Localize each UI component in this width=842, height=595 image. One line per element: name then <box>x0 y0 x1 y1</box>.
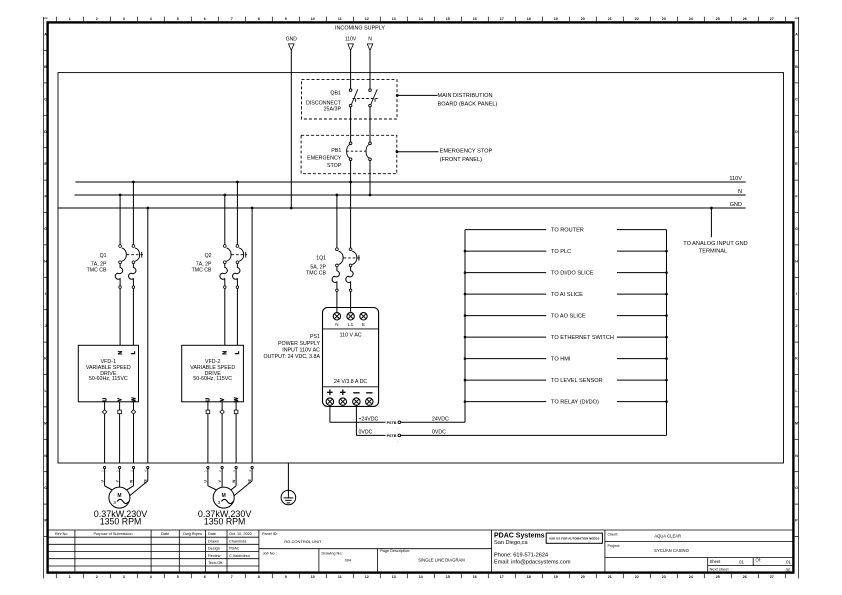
svg-text:TMC CB: TMC CB <box>87 267 107 273</box>
svg-text:9: 9 <box>285 17 287 21</box>
svg-text:26: 26 <box>743 17 747 21</box>
svg-text:Date: Date <box>161 532 169 536</box>
node rung/rail junctions <box>464 357 467 360</box>
svg-text:GND: GND <box>286 37 298 43</box>
svg-text:110 V AC: 110 V AC <box>340 332 362 338</box>
svg-text:W: W <box>232 480 236 483</box>
svg-text:D: D <box>795 130 798 134</box>
svg-text:3: 3 <box>113 500 116 505</box>
wire tag VFD-2 2 <box>220 410 224 414</box>
wire Q1 pole2 to VFD-1 L <box>132 288 134 345</box>
svg-text:BOARD (BACK PANEL): BOARD (BACK PANEL) <box>438 101 498 107</box>
svg-text:9: 9 <box>285 575 287 579</box>
wire rung TO RELAY (DI/DO) (right) <box>617 401 667 403</box>
PS1 output terminal +2 <box>339 398 346 405</box>
bus N <box>75 194 746 196</box>
svg-text:004: 004 <box>345 559 351 563</box>
wire VFD-1 output 1 to motor M1 <box>104 402 106 463</box>
svg-text:24 V/3.8 A DC: 24 V/3.8 A DC <box>334 379 367 385</box>
wire Q2 pole2 to VFD-2 L <box>236 288 238 345</box>
motor M1 (0.37kW 230V) <box>104 467 106 469</box>
svg-text:110V: 110V <box>345 37 357 43</box>
svg-text:W: W <box>234 397 240 402</box>
svg-text:5: 5 <box>177 575 179 579</box>
svg-text:10: 10 <box>311 17 315 21</box>
svg-text:Job No :: Job No : <box>263 551 277 555</box>
wire PS1 +24VDC output <box>329 405 331 422</box>
svg-text:San Diego,ca: San Diego,ca <box>494 540 528 546</box>
svg-text:Date: Date <box>208 532 216 536</box>
svg-text:12: 12 <box>365 575 369 579</box>
wire rung TO DI/DO SLICE (right) <box>617 272 667 274</box>
PS1 terminal N <box>333 313 340 320</box>
QB1 gang link (dashed) <box>353 98 378 100</box>
svg-text:OUTPUT: 24 VDC, 3.8A: OUTPUT: 24 VDC, 3.8A <box>263 354 320 360</box>
wire tag VFD-2 1 <box>206 410 210 414</box>
svg-text:U: U <box>102 398 108 402</box>
wire rung TO DI/DO SLICE (left) <box>465 272 546 274</box>
emergency stop PB1 contact 2 <box>369 142 372 145</box>
svg-text:RO-CONTROL UNIT: RO-CONTROL UNIT <box>284 539 322 544</box>
wire N bus to Q2 pole1 <box>224 195 226 245</box>
svg-text:STOP: STOP <box>327 163 342 169</box>
bus GND <box>58 207 746 209</box>
power supply PS1 enclosure <box>323 308 379 407</box>
terminal PSTB (24VDC) <box>386 419 399 425</box>
wire QB1 pole1 to PB1 <box>350 107 352 142</box>
bus 110V <box>75 181 745 183</box>
wire GND drop to ground bus <box>290 50 292 208</box>
svg-text:Drawn: Drawn <box>208 539 219 543</box>
top ruler numbers <box>69 17 774 21</box>
svg-text:6: 6 <box>204 575 206 579</box>
svg-text:H: H <box>44 259 47 263</box>
wire QB1 pole2 to PB1 <box>369 107 371 142</box>
svg-text:EMERGENCY STOP: EMERGENCY STOP <box>440 149 493 155</box>
left ruler ticks <box>44 18 48 536</box>
svg-text:23: 23 <box>662 575 666 579</box>
svg-text:18: 18 <box>527 17 531 21</box>
svg-text:I: I <box>45 292 46 296</box>
wire Q1 pole1 to VFD-1 N <box>119 288 121 345</box>
PS1 terminal E <box>360 313 367 320</box>
wire 1Q1 pole1 to PS1 N <box>336 292 338 313</box>
svg-text:TO ROUTER: TO ROUTER <box>551 228 584 234</box>
svg-text:13: 13 <box>392 575 396 579</box>
disconnect QB1 enclosure (dashed) <box>302 80 398 119</box>
svg-text:7: 7 <box>231 17 233 21</box>
svg-text:PDAC Systems: PDAC Systems <box>494 532 545 539</box>
wire Q2 pole1 to VFD-2 N <box>224 288 226 345</box>
svg-text:3: 3 <box>123 575 125 579</box>
svg-text:PSTB: PSTB <box>387 434 397 438</box>
wire GND bus to motor1 PE <box>147 208 149 463</box>
disconnect QB1 pole 1 (110V) <box>349 89 352 92</box>
svg-text:Sheet: Sheet <box>710 559 722 564</box>
node rung/rail junctions <box>464 336 467 339</box>
svg-text:PS1: PS1 <box>310 334 320 340</box>
svg-text:O: O <box>795 486 798 490</box>
circuit breaker Q1 (7A 2P TMC CB) <box>119 245 122 248</box>
wire rung TO ROUTER (left) <box>465 229 546 231</box>
svg-text:J: J <box>45 324 47 328</box>
svg-text:W: W <box>129 480 133 483</box>
svg-text:14: 14 <box>419 17 423 21</box>
PS1 output terminal +1 <box>326 398 333 405</box>
svg-text:14: 14 <box>419 575 423 579</box>
svg-text:11: 11 <box>338 575 342 579</box>
svg-text:Dwg Rqres: Dwg Rqres <box>183 532 202 536</box>
svg-text:3: 3 <box>218 500 221 505</box>
svg-text:AQUA CLEAR: AQUA CLEAR <box>654 534 681 539</box>
svg-text:W: W <box>131 397 137 402</box>
svg-text:U: U <box>206 398 212 402</box>
svg-text:M: M <box>222 493 226 499</box>
svg-text:15: 15 <box>446 17 450 21</box>
top ruler ticks <box>56 17 785 22</box>
svg-text:25: 25 <box>716 17 720 21</box>
wire rung TO PLC (right) <box>617 250 667 252</box>
svg-text:7: 7 <box>231 575 233 579</box>
wire 110V bus to Q2 pole2 <box>236 182 238 245</box>
wire N bus to Q1 pole1 <box>119 195 121 245</box>
wire N drop to QB1 <box>369 50 371 89</box>
svg-text:VARIABLE SPEED: VARIABLE SPEED <box>86 365 131 371</box>
svg-text:PDAC: PDAC <box>229 547 240 551</box>
title block <box>48 530 794 573</box>
svg-text:8: 8 <box>258 575 260 579</box>
node rung/rail junctions <box>464 293 467 296</box>
svg-text:TMC CB: TMC CB <box>306 271 326 277</box>
svg-text:TO RELAY (DI/DO): TO RELAY (DI/DO) <box>551 400 599 406</box>
PS1 divider top <box>323 328 379 330</box>
disconnect QB1 pole 2 (N) <box>369 89 372 92</box>
PS1 output terminal -2 <box>366 398 373 405</box>
svg-text:N: N <box>335 322 338 327</box>
svg-text:M: M <box>44 421 47 425</box>
wire GND bus to analog input gnd terminal <box>710 208 712 237</box>
svg-text:TMC CB: TMC CB <box>192 267 212 273</box>
wire VFD-2 output 3 to motor M2 <box>235 402 237 463</box>
wire rung TO ETHERNET SWITCH (right) <box>617 336 667 338</box>
terminal PSTB (0VDC) <box>386 432 399 438</box>
svg-text:PB1: PB1 <box>331 148 341 154</box>
svg-text:25: 25 <box>716 575 720 579</box>
wire PB1 contact2 to N bus <box>369 160 371 195</box>
emergency stop PB1 contact 1 <box>349 142 352 145</box>
wire VFD-1 output 2 to motor M1 <box>119 402 121 463</box>
svg-text:50-60Hz, 115VC: 50-60Hz, 115VC <box>193 376 232 382</box>
svg-text:M: M <box>117 493 121 499</box>
PS1 output terminal -1 <box>353 398 360 405</box>
wire rung TO AI SLICE (right) <box>617 293 667 295</box>
svg-text:1: 1 <box>69 575 71 579</box>
svg-text:Q1: Q1 <box>100 253 107 259</box>
svg-text:17: 17 <box>500 17 504 21</box>
svg-text:N: N <box>44 454 47 458</box>
svg-text:6: 6 <box>204 17 206 21</box>
svg-text:QB1: QB1 <box>330 91 341 97</box>
svg-text:K: K <box>44 357 47 361</box>
svg-text:1350 RPM: 1350 RPM <box>100 517 142 527</box>
svg-text:INPUT 110V AC: INPUT 110V AC <box>282 348 320 354</box>
svg-text:-: - <box>397 440 398 444</box>
wire PS1 0VDC output <box>355 405 357 435</box>
svg-text:N: N <box>118 351 124 355</box>
svg-text:Rev No: Rev No <box>55 532 68 536</box>
wire rung TO HMI (right) <box>617 358 667 360</box>
svg-text:C.Valdivieso: C.Valdivieso <box>229 554 250 558</box>
svg-text:26: 26 <box>743 575 747 579</box>
svg-text:Chaminda: Chaminda <box>229 539 247 543</box>
wire rung TO HMI (left) <box>465 358 546 360</box>
svg-text:M: M <box>795 421 798 425</box>
node rung/rail junctions <box>464 379 467 382</box>
sheet outer thin border left <box>43 17 45 579</box>
svg-text:TO HMI: TO HMI <box>551 357 571 363</box>
svg-text:22: 22 <box>635 17 639 21</box>
svg-text:25A/3P: 25A/3P <box>324 106 342 112</box>
svg-text:GND: GND <box>730 202 742 208</box>
wire rung TO AI SLICE (left) <box>465 293 546 295</box>
wire VFD-1 output 3 to motor M1 <box>133 402 135 463</box>
callout line to EMERGENCY STOP <box>397 151 439 153</box>
VFD-1 variable speed drive <box>78 345 138 402</box>
svg-text:TO DI/DO SLICE: TO DI/DO SLICE <box>551 271 594 277</box>
rail +24VDC (left) <box>464 230 466 423</box>
svg-text:B: B <box>44 65 47 69</box>
svg-text:1350 RPM: 1350 RPM <box>204 517 246 527</box>
terminal 110V (incoming) <box>348 44 354 51</box>
svg-text:2: 2 <box>96 17 98 21</box>
svg-text:I: I <box>796 292 797 296</box>
title block header texts <box>55 532 252 565</box>
svg-text:10: 10 <box>311 575 315 579</box>
svg-text:A: A <box>44 33 47 37</box>
wire 1Q1 pole2 to PS1 L1 <box>350 292 352 313</box>
svg-text:Phone: 619-571-2624: Phone: 619-571-2624 <box>494 553 548 559</box>
circuit breaker 1Q1 (5A 2P TMC CB) <box>336 248 339 251</box>
wire tag VFD-1 2 <box>118 410 122 414</box>
svg-text:27: 27 <box>770 575 774 579</box>
svg-text:G: G <box>44 227 47 231</box>
svg-text:H: H <box>795 259 798 263</box>
svg-text:13: 13 <box>392 17 396 21</box>
svg-text:0VDC: 0VDC <box>432 430 446 436</box>
svg-text:Page Description:: Page Description: <box>380 549 410 553</box>
svg-text:INCOMING SUPPLY: INCOMING SUPPLY <box>335 26 385 32</box>
svg-text:16: 16 <box>473 575 477 579</box>
wire tag VFD-1 3 <box>131 410 135 414</box>
svg-text:+24VDC: +24VDC <box>359 417 379 423</box>
emergency stop PB1 enclosure (dashed) <box>301 135 397 173</box>
svg-text:PSTB: PSTB <box>387 421 397 425</box>
svg-text:Purpose of Submission: Purpose of Submission <box>93 532 132 536</box>
svg-text:22: 22 <box>635 575 639 579</box>
wire N bus to 1Q1 pole1 <box>336 195 338 248</box>
wire rung TO RELAY (DI/DO) (left) <box>465 401 546 403</box>
svg-text:19: 19 <box>554 17 558 21</box>
wire rung TO LEVEL SENSOR (left) <box>465 379 546 381</box>
svg-text:4: 4 <box>150 17 152 21</box>
inner drawing frame <box>58 73 784 463</box>
wire VFD-2 output 1 to motor M2 <box>207 402 209 463</box>
bottom ruler ticks <box>56 574 785 578</box>
svg-text:27: 27 <box>770 17 774 21</box>
svg-text:12: 12 <box>365 17 369 21</box>
wire 110V bus to Q1 pole2 <box>132 182 134 245</box>
svg-text:J: J <box>796 324 798 328</box>
svg-text:18: 18 <box>527 575 531 579</box>
svg-text:21: 21 <box>608 17 612 21</box>
svg-text:21: 21 <box>608 575 612 579</box>
svg-text:N: N <box>368 37 372 43</box>
svg-text:Review: Review <box>208 554 221 558</box>
wire 110V drop to QB1 <box>350 50 352 89</box>
svg-text:B: B <box>795 65 798 69</box>
svg-text:ASK US FOR AUTOMATION NEEDS: ASK US FOR AUTOMATION NEEDS <box>549 537 600 541</box>
svg-text:24VDC: 24VDC <box>432 417 449 423</box>
svg-text:VARIABLE SPEED: VARIABLE SPEED <box>190 365 235 371</box>
svg-text:16: 16 <box>473 17 477 21</box>
svg-text:24: 24 <box>689 575 693 579</box>
svg-text:Panel ID:: Panel ID: <box>262 532 278 536</box>
svg-text:(FRONT PANEL): (FRONT PANEL) <box>440 157 483 163</box>
svg-text:3: 3 <box>123 17 125 21</box>
svg-text:2: 2 <box>96 575 98 579</box>
node rung/rail junctions <box>464 271 467 274</box>
svg-text:Design: Design <box>208 547 220 551</box>
svg-text:Client:: Client: <box>608 532 619 536</box>
wire rung TO ETHERNET SWITCH (left) <box>465 336 546 338</box>
svg-text:N: N <box>223 351 229 355</box>
svg-text:N: N <box>795 454 798 458</box>
terminal GND (incoming) <box>289 44 295 51</box>
svg-text:Of:: Of: <box>756 558 762 563</box>
svg-text:1Q1: 1Q1 <box>316 256 326 262</box>
node N/PB1 junction <box>369 194 372 197</box>
VFD-2 variable speed drive <box>182 345 244 402</box>
protective earth symbol <box>287 463 289 490</box>
svg-text:Project:: Project: <box>608 544 621 548</box>
svg-text:TO AO SLICE: TO AO SLICE <box>551 314 586 320</box>
svg-text:MAIN DISTRIBUTION: MAIN DISTRIBUTION <box>438 93 493 99</box>
node rung/rail junctions <box>464 250 467 253</box>
svg-text:K: K <box>795 357 798 361</box>
svg-text:TO LEVEL SENSOR: TO LEVEL SENSOR <box>551 378 603 384</box>
svg-text:Oct. 10, 2020: Oct. 10, 2020 <box>229 532 252 536</box>
right ruler letters <box>795 33 798 523</box>
svg-text:E: E <box>362 322 365 327</box>
wire rung TO LEVEL SENSOR (right) <box>617 379 667 381</box>
svg-text:11: 11 <box>338 17 342 21</box>
svg-text:EMERGENCY: EMERGENCY <box>307 155 342 161</box>
svg-text:5: 5 <box>177 17 179 21</box>
svg-text:110V: 110V <box>729 176 742 182</box>
svg-text:23: 23 <box>662 17 666 21</box>
wire rung TO ROUTER (right) <box>617 229 667 231</box>
svg-text:Q2: Q2 <box>205 253 212 259</box>
svg-text:N: N <box>738 189 742 195</box>
node GND/incoming junction <box>290 207 293 210</box>
svg-text:A: A <box>795 33 798 37</box>
rail 0VDC (right) <box>666 230 668 436</box>
callout line to MAIN DISTRIBUTION BOARD <box>397 94 438 96</box>
svg-text:01: 01 <box>786 559 791 564</box>
svg-text:15: 15 <box>446 575 450 579</box>
svg-text:TO ANALOG INPUT GND: TO ANALOG INPUT GND <box>683 241 747 247</box>
wire GND bus to motor2 PE <box>251 208 253 463</box>
svg-text:20: 20 <box>581 17 585 21</box>
svg-text:POWER SUPPLY: POWER SUPPLY <box>278 341 320 347</box>
svg-text:TO AI SLICE: TO AI SLICE <box>551 292 583 298</box>
wire tag VFD-1 1 <box>102 410 106 414</box>
svg-text:Drawing No:: Drawing No: <box>322 551 343 555</box>
sheet outer thin border right <box>798 17 800 579</box>
svg-text:4: 4 <box>150 575 152 579</box>
svg-text:Email: info@pdacsystems.com: Email: info@pdacsystems.com <box>494 560 571 566</box>
svg-text:Next sheet: Next sheet <box>710 566 730 571</box>
svg-text:24: 24 <box>689 17 693 21</box>
PS1 divider bottom <box>323 386 379 388</box>
svg-text:C: C <box>795 97 798 101</box>
PB1 gang link (dashed) <box>346 150 365 152</box>
svg-text:8: 8 <box>258 17 260 21</box>
left ruler letters <box>44 33 47 523</box>
svg-text:C: C <box>44 97 47 101</box>
svg-text:01: 01 <box>739 559 744 564</box>
node rung/rail junctions <box>464 400 467 403</box>
PS1 output polarity labels <box>327 390 372 396</box>
motor M2 (0.37kW 230V) <box>207 467 209 469</box>
svg-text:G: G <box>795 227 798 231</box>
svg-text:D: D <box>44 130 47 134</box>
svg-text:V: V <box>117 398 123 402</box>
svg-text:SINGLE LINE DIAGRAM: SINGLE LINE DIAGRAM <box>418 558 465 563</box>
svg-text:0VDC: 0VDC <box>359 430 373 436</box>
terminal N (incoming) <box>367 44 373 51</box>
svg-text:TO PLC: TO PLC <box>551 249 571 255</box>
svg-text:00: 00 <box>786 568 791 573</box>
wire rung TO AO SLICE (left) <box>465 315 546 317</box>
node rung/rail junctions <box>464 314 467 317</box>
svg-text:V: V <box>220 398 226 402</box>
bottom ruler numbers <box>69 575 774 579</box>
node 110V/PB1 junction <box>349 181 352 184</box>
svg-text:Tech.Off.: Tech.Off. <box>208 561 223 565</box>
svg-text:19: 19 <box>554 575 558 579</box>
svg-text:1: 1 <box>69 17 71 21</box>
PS1 terminal L1 <box>347 313 354 320</box>
svg-text:TERMINAL: TERMINAL <box>699 248 727 254</box>
wire rung TO AO SLICE (right) <box>617 315 667 317</box>
svg-text:50-60Hz, 115VC: 50-60Hz, 115VC <box>89 376 128 382</box>
svg-text:TO ETHERNET SWITCH: TO ETHERNET SWITCH <box>551 335 614 341</box>
svg-text:O: O <box>44 486 47 490</box>
wire PB1 contact1 to 110V bus and 1Q1 <box>350 160 352 248</box>
svg-text:17: 17 <box>500 575 504 579</box>
svg-text:-: - <box>397 426 398 430</box>
svg-text:SYCUAN CASINO: SYCUAN CASINO <box>654 548 689 553</box>
svg-text:L1: L1 <box>348 322 354 327</box>
circuit breaker Q2 (7A 2P TMC CB) <box>223 245 226 248</box>
wire rung TO PLC (left) <box>465 250 546 252</box>
wire tag VFD-2 3 <box>234 410 238 414</box>
wire VFD-2 output 2 to motor M2 <box>221 402 223 463</box>
svg-text:20: 20 <box>581 575 585 579</box>
right ruler ticks <box>795 18 799 536</box>
